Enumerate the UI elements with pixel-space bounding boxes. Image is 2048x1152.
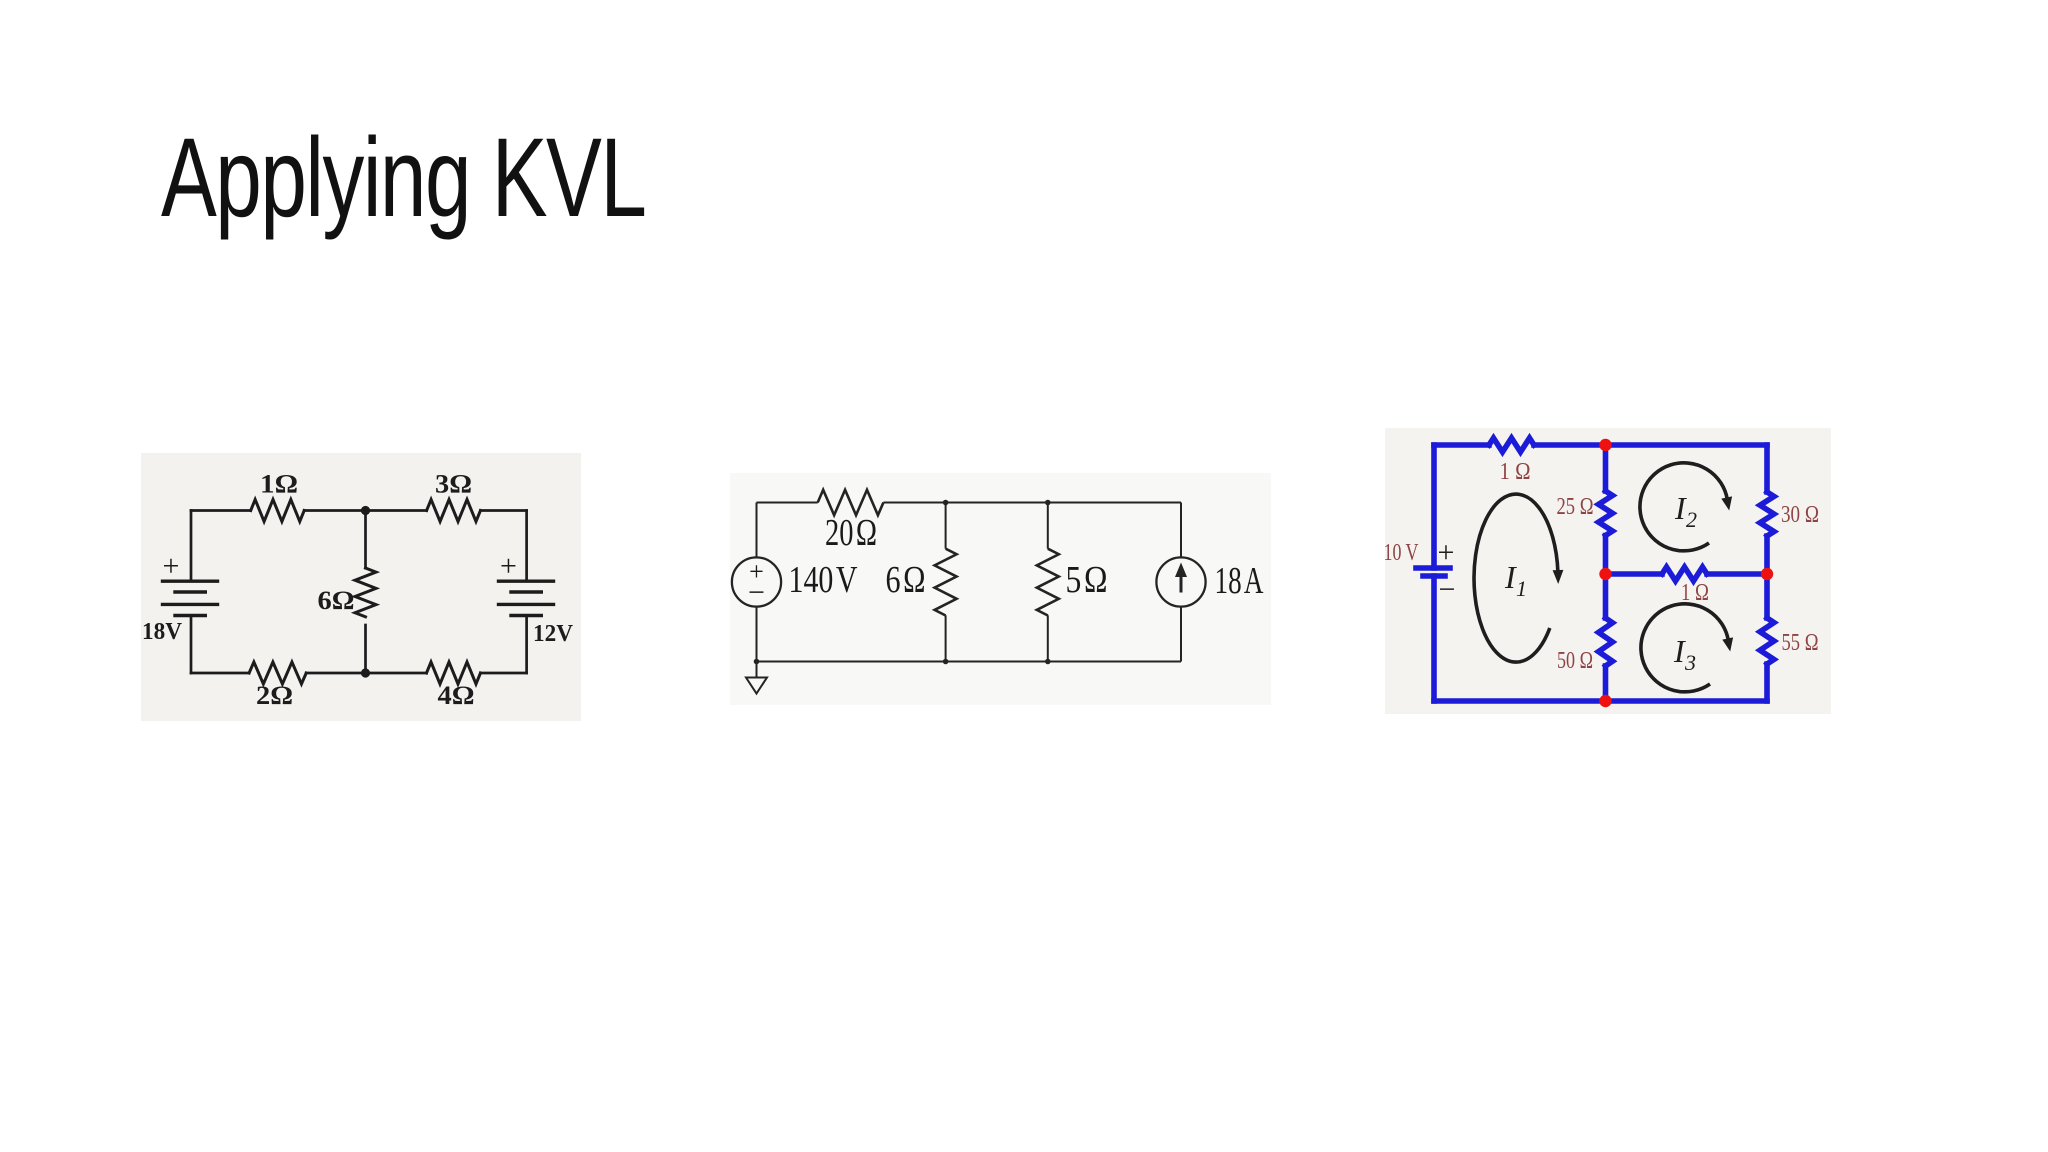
- svg-text:3: 3: [1684, 650, 1696, 675]
- svg-text:12V: 12V: [533, 621, 574, 647]
- svg-text:18V: 18V: [142, 619, 183, 645]
- node top: [361, 506, 370, 515]
- wire middle branch lower: [364, 625, 367, 673]
- mesh arrow I1: [1553, 570, 1564, 584]
- resistor 1ohm top: [1489, 438, 1534, 452]
- battery B2 12V: [499, 581, 554, 615]
- svg-text:55 Ω: 55 Ω: [1782, 630, 1819, 656]
- middle horizontal wire left: [1606, 571, 1663, 577]
- wire right lower: [525, 616, 528, 674]
- svg-text:1: 1: [1516, 576, 1527, 601]
- branch 6ohm lower wire: [945, 615, 947, 661]
- resistor 5ohm: [1037, 549, 1059, 616]
- svg-text:1Ω: 1Ω: [260, 470, 298, 499]
- wire bottom-left: [191, 672, 249, 675]
- wire left lower: [756, 607, 758, 662]
- source IS 18A circle: [1156, 557, 1205, 606]
- svg-text:1 Ω: 1 Ω: [1681, 580, 1709, 606]
- svg-text:18 A: 18 A: [1215, 560, 1264, 602]
- mesh loop I1: [1474, 494, 1558, 662]
- resistor 25ohm: [1599, 491, 1613, 536]
- mesh arrow I2: [1721, 496, 1732, 510]
- wire top-right: [883, 502, 1181, 504]
- wire top-left: [757, 502, 818, 504]
- node A top: [1599, 439, 1611, 451]
- wire left upper: [756, 503, 758, 558]
- node C right: [1761, 568, 1773, 580]
- wire middle branch upper: [364, 511, 367, 569]
- resistor 50ohm: [1599, 618, 1613, 666]
- wire top-mid: [304, 509, 426, 512]
- svg-text:1 Ω: 1 Ω: [1500, 459, 1531, 485]
- wire top-right: [1534, 442, 1767, 448]
- svg-text:140 V: 140 V: [789, 559, 858, 601]
- wire top-right: [481, 509, 527, 512]
- svg-text:+: +: [163, 550, 180, 583]
- svg-text:2: 2: [1686, 507, 1697, 532]
- mesh loop I3: [1641, 604, 1728, 692]
- node bottom: [361, 668, 370, 677]
- wire left lower: [190, 616, 193, 674]
- wire bottom-right: [481, 672, 527, 675]
- node ground: [754, 659, 760, 665]
- right wire mid seg: [1764, 536, 1770, 618]
- mesh arrow I3: [1722, 637, 1733, 651]
- wire top-left: [191, 509, 251, 512]
- wire left upper: [1431, 445, 1437, 568]
- resistor 20ohm: [818, 490, 884, 515]
- bottom wire: [1434, 698, 1767, 704]
- background panel: [730, 473, 1271, 705]
- svg-text:30 Ω: 30 Ω: [1781, 502, 1819, 528]
- middle horizontal wire right: [1707, 571, 1767, 577]
- svg-text:10 V: 10 V: [1384, 540, 1419, 566]
- source VS 140V circle: [732, 557, 781, 606]
- svg-text:25 Ω: 25 Ω: [1557, 494, 1594, 520]
- svg-text:20 Ω: 20 Ω: [825, 512, 877, 554]
- svg-text:6Ω: 6Ω: [318, 586, 355, 615]
- resistor 6ohm: [935, 549, 957, 616]
- wire right lower: [1180, 607, 1182, 662]
- svg-text:3Ω: 3Ω: [435, 470, 472, 499]
- svg-text:−: −: [1439, 573, 1456, 606]
- background panel: [141, 453, 581, 721]
- middle wire mid seg: [1603, 536, 1609, 619]
- resistor 1ohm mid: [1662, 567, 1707, 581]
- branch 5ohm upper wire: [1047, 503, 1049, 549]
- wire left lower: [1431, 576, 1437, 701]
- resistor R4 4ohm: [427, 662, 481, 684]
- svg-text:+: +: [500, 550, 517, 583]
- resistor R2 2ohm: [249, 662, 306, 684]
- battery B1 18V: [163, 581, 218, 615]
- node B mid: [1599, 568, 1611, 580]
- node 5ohm bottom: [1045, 659, 1051, 665]
- mesh loop I2: [1640, 463, 1727, 551]
- node 6ohm bottom: [943, 659, 949, 665]
- wire right upper: [525, 511, 528, 582]
- node D bottom: [1599, 695, 1611, 707]
- branch 6ohm upper wire: [945, 503, 947, 549]
- svg-text:50 Ω: 50 Ω: [1557, 648, 1593, 674]
- wire right upper: [1180, 503, 1182, 558]
- svg-text:2Ω: 2Ω: [256, 681, 293, 710]
- IS arrow shaft: [1180, 571, 1183, 593]
- svg-text:+: +: [1438, 536, 1455, 569]
- middle wire top seg: [1603, 445, 1609, 491]
- svg-text:5 Ω: 5 Ω: [1066, 559, 1108, 601]
- resistor R1 1ohm: [251, 500, 305, 522]
- branch 5ohm lower wire: [1047, 615, 1049, 661]
- right wire bottom seg: [1764, 664, 1770, 701]
- background panel: [1385, 428, 1831, 714]
- wire left upper: [190, 511, 193, 582]
- resistor R5 6ohm: [355, 568, 376, 617]
- node 5ohm top: [1045, 500, 1051, 506]
- resistor 30ohm: [1760, 492, 1774, 536]
- wire top-left: [1434, 442, 1489, 448]
- ground symbol: [746, 678, 767, 694]
- battery 10V long plate: [1416, 565, 1450, 571]
- right wire top seg: [1764, 445, 1770, 492]
- bottom wire: [757, 661, 1182, 663]
- ground stub: [756, 662, 758, 678]
- svg-text:4Ω: 4Ω: [438, 681, 475, 710]
- wire bottom-mid: [306, 672, 426, 675]
- IS arrow head: [1175, 563, 1187, 578]
- svg-text:6 Ω: 6 Ω: [886, 559, 926, 601]
- battery 10V short plate: [1423, 573, 1445, 579]
- resistor 55ohm: [1760, 618, 1774, 664]
- middle wire bottom seg: [1603, 666, 1609, 701]
- resistor R3 3ohm: [427, 500, 481, 522]
- title: [161, 122, 645, 234]
- node 6ohm top: [943, 500, 949, 506]
- svg-text:−: −: [748, 576, 765, 609]
